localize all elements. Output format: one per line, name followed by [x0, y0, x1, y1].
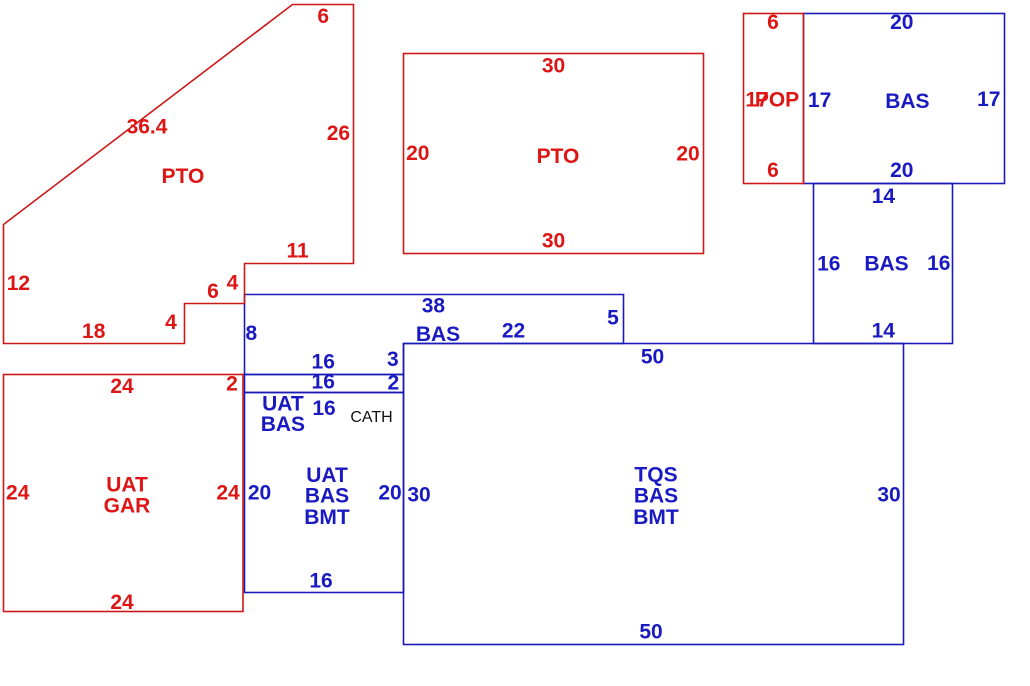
svg-text:16: 16	[927, 252, 950, 275]
BAS second rect	[814, 184, 953, 344]
svg-text:50: 50	[641, 346, 664, 369]
svg-text:38: 38	[422, 294, 446, 317]
svg-text:BAS: BAS	[634, 485, 678, 508]
svg-text:6: 6	[767, 159, 779, 182]
svg-text:50: 50	[639, 621, 662, 644]
svg-text:3: 3	[387, 348, 399, 371]
svg-text:14: 14	[872, 320, 896, 343]
svg-text:4: 4	[165, 311, 177, 334]
svg-text:30: 30	[542, 55, 565, 78]
svg-text:20: 20	[890, 159, 913, 182]
svg-text:20: 20	[378, 482, 401, 505]
svg-text:6: 6	[317, 5, 329, 28]
UAT BAS BMT rect	[245, 393, 404, 593]
svg-text:16: 16	[312, 397, 335, 420]
UAT GAR rect	[4, 375, 244, 612]
svg-text:26: 26	[327, 122, 350, 145]
svg-text:4: 4	[227, 272, 239, 295]
svg-text:16: 16	[312, 371, 335, 394]
svg-text:16: 16	[309, 570, 332, 593]
svg-text:24: 24	[6, 482, 30, 505]
svg-text:GAR: GAR	[104, 495, 151, 518]
svg-text:36.4: 36.4	[127, 116, 168, 139]
svg-text:16: 16	[817, 252, 840, 275]
svg-text:12: 12	[7, 272, 30, 295]
UAT BAS strip	[245, 375, 404, 393]
svg-text:22: 22	[502, 320, 525, 343]
svg-text:20: 20	[890, 11, 913, 34]
svg-text:PTO: PTO	[162, 165, 205, 188]
svg-text:17: 17	[808, 89, 831, 112]
svg-text:6: 6	[207, 280, 219, 303]
BAS middle polygon	[245, 295, 624, 375]
svg-text:BAS: BAS	[261, 413, 305, 436]
svg-text:8: 8	[246, 322, 258, 345]
svg-text:BAS: BAS	[885, 90, 929, 113]
PTO rect middle	[404, 54, 704, 254]
svg-text:5: 5	[607, 307, 619, 330]
svg-text:BMT: BMT	[304, 506, 350, 529]
svg-text:18: 18	[82, 320, 106, 343]
svg-text:24: 24	[110, 375, 134, 398]
POP rect	[744, 14, 804, 184]
svg-text:BAS: BAS	[305, 485, 349, 508]
PTO patio polygon	[4, 5, 354, 344]
svg-text:30: 30	[542, 230, 565, 253]
svg-text:BAS: BAS	[416, 323, 460, 346]
svg-text:24: 24	[216, 482, 240, 505]
BAS upper-right rect	[804, 14, 1005, 184]
svg-text:2: 2	[226, 373, 238, 396]
svg-text:BAS: BAS	[864, 253, 908, 276]
svg-text:14: 14	[872, 185, 896, 208]
svg-text:TQS: TQS	[634, 464, 677, 487]
svg-text:2: 2	[387, 372, 399, 395]
svg-text:UAT: UAT	[106, 473, 148, 496]
svg-text:30: 30	[877, 484, 900, 507]
svg-text:20: 20	[248, 482, 271, 505]
svg-text:20: 20	[676, 142, 699, 165]
TQS BAS BMT rect	[404, 344, 904, 645]
svg-text:6: 6	[767, 11, 779, 34]
svg-text:20: 20	[406, 142, 429, 165]
svg-text:POP: POP	[755, 89, 799, 112]
svg-text:PTO: PTO	[537, 145, 580, 168]
svg-text:24: 24	[110, 591, 134, 614]
svg-text:11: 11	[286, 240, 309, 263]
svg-text:30: 30	[407, 484, 430, 507]
svg-text:CATH: CATH	[350, 409, 392, 426]
svg-text:17: 17	[977, 88, 1000, 111]
svg-text:BMT: BMT	[633, 506, 679, 529]
